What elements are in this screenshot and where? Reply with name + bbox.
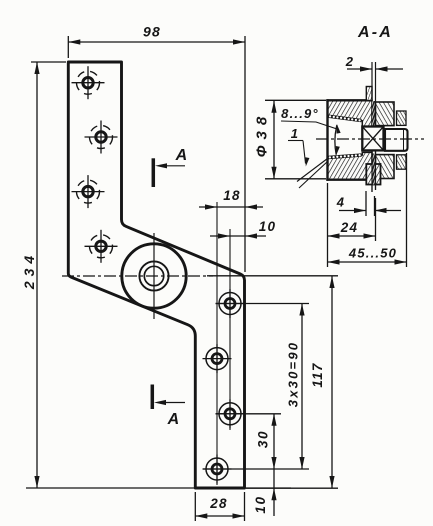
svg-text:10: 10 [259,219,276,234]
svg-text:10: 10 [253,495,268,513]
svg-text:A: A [167,411,181,428]
svg-text:18: 18 [223,188,240,203]
svg-text:2: 2 [345,54,354,69]
svg-text:30: 30 [256,430,271,448]
svg-text:234: 234 [21,251,37,290]
svg-text:117: 117 [310,362,325,387]
svg-text:45...50: 45...50 [348,246,397,261]
svg-text:98: 98 [143,24,161,40]
svg-text:4: 4 [336,195,345,210]
svg-text:A: A [175,147,189,164]
svg-text:1: 1 [291,126,299,141]
svg-text:3x30=90: 3x30=90 [286,341,301,407]
svg-text:A-A: A-A [357,24,393,41]
svg-text:24: 24 [340,220,358,235]
svg-text:8...9°: 8...9° [281,106,319,121]
svg-text:Ф38: Ф38 [254,111,271,157]
svg-text:28: 28 [209,496,227,511]
